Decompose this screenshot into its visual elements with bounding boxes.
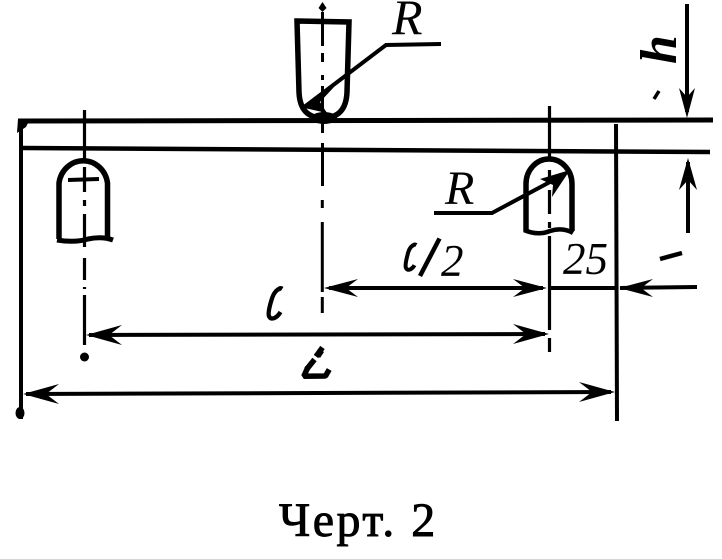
dimension h lower line	[686, 162, 690, 233]
leader for top R	[303, 44, 441, 108]
small tick near h	[654, 91, 659, 99]
loading nose U1	[297, 21, 349, 118]
left line bottom blob	[16, 407, 25, 419]
arrowhead l/2 left	[324, 279, 358, 297]
svg-text:R: R	[444, 162, 474, 215]
specimen bottom line	[23, 148, 710, 152]
right support	[526, 159, 572, 231]
arrowhead h up	[679, 158, 697, 190]
arrowhead h down	[679, 88, 695, 118]
left support	[59, 161, 108, 239]
right support bottom	[524, 229, 573, 233]
nose tip junction blob	[311, 112, 337, 124]
tolerance dash	[660, 253, 682, 259]
svg-text:h: h	[631, 35, 688, 64]
left support centerline	[83, 110, 86, 345]
dimension line L	[26, 392, 611, 394]
25 outside arrow line	[620, 287, 697, 288]
arrowhead l right	[513, 324, 549, 344]
arrowhead L right	[579, 382, 615, 402]
arrowhead L left	[23, 384, 59, 404]
left end blob	[17, 119, 29, 133]
arrowhead 25 left-pointing	[619, 279, 653, 297]
svg-text:2: 2	[441, 236, 464, 286]
dimension line l/2	[329, 286, 543, 290]
arrowhead top R leader	[300, 87, 334, 113]
left edge extension line	[19, 126, 23, 419]
centerline lower dot	[316, 349, 324, 358]
svg-text:R: R	[391, 0, 423, 45]
arrowhead l/2 right	[513, 279, 547, 297]
left support cross	[68, 179, 99, 180]
left support centerline end dot	[80, 353, 89, 362]
label L	[304, 348, 329, 377]
dimension line 25	[549, 286, 616, 290]
dimension line l	[89, 334, 545, 335]
arrowhead l left	[86, 325, 122, 345]
left support bottom	[57, 238, 113, 242]
svg-text:25: 25	[563, 234, 608, 284]
dimension h upper line	[685, 4, 689, 112]
svg-text:Черт. 2: Черт. 2	[279, 494, 438, 547]
right edge extension line	[616, 124, 617, 421]
loading nose centerline	[321, 12, 324, 313]
label l/2	[406, 236, 464, 286]
right support centerline	[548, 106, 551, 352]
arrowhead bottom R leader	[540, 170, 570, 197]
leader for bottom R	[434, 175, 563, 213]
specimen top line	[18, 120, 713, 121]
label l	[269, 288, 283, 319]
centerline top tick	[319, 2, 327, 12]
